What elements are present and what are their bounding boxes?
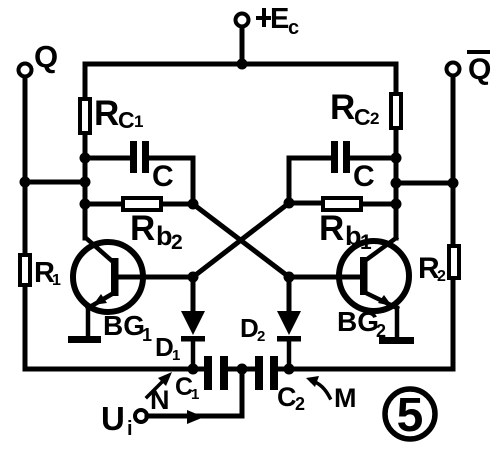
wire node B up to right capacitor C [289, 158, 330, 203]
label Rb2 [130, 209, 183, 254]
label D2 [240, 313, 265, 345]
svg-text:2: 2 [171, 231, 183, 254]
svg-text:1: 1 [172, 347, 180, 364]
ground BG2 emitter [379, 337, 414, 344]
label node N with pointer arrow [147, 372, 172, 415]
label BG1 [103, 310, 152, 345]
junction +Ec on top rail [237, 59, 248, 70]
svg-text:1: 1 [52, 272, 61, 289]
svg-text:E: E [270, 3, 289, 35]
terminal Ui [135, 410, 147, 422]
capacitor C1 [204, 356, 228, 390]
svg-text:R: R [330, 88, 355, 127]
svg-text:C: C [277, 382, 297, 412]
wire R2 to bottom rail [451, 280, 456, 369]
terminal Q [19, 64, 32, 77]
svg-text:1: 1 [191, 386, 199, 403]
label BG2 [337, 306, 386, 341]
wire R1 to bottom rail [23, 287, 28, 369]
svg-text:2: 2 [257, 328, 265, 345]
node A junction (Rb2 / C / cross wire) [188, 199, 199, 210]
svg-text:C: C [152, 160, 174, 193]
label Rb1 [319, 209, 372, 254]
svg-text:2: 2 [437, 268, 446, 285]
wire right rail to Qbar rail [396, 181, 453, 186]
wire Q rail down to R1 [23, 182, 28, 253]
wire bottom rail left segment [25, 367, 203, 372]
junction right rail / Rb1 [391, 199, 402, 210]
wire Qbar terminal down right rail [451, 76, 456, 183]
svg-text:C: C [353, 160, 375, 193]
resistor Rb1 [323, 198, 361, 210]
diode D2 [277, 311, 301, 369]
wire +Ec terminal to top rail [240, 27, 245, 64]
svg-text:C: C [354, 104, 371, 130]
label D1 [155, 332, 180, 364]
label Ui [101, 400, 133, 440]
wire Rb1 to right rail [363, 202, 396, 207]
wire bottom rail right segment [279, 367, 453, 372]
svg-text:i: i [127, 418, 133, 440]
diode D1 [181, 311, 205, 369]
wire right capacitor C to right rail [351, 156, 396, 161]
arrow on input wire [187, 410, 204, 424]
label RC2 [330, 88, 379, 130]
wire right rail top to RC2 [394, 64, 399, 92]
svg-text:BG: BG [337, 306, 379, 337]
svg-text:5: 5 [397, 389, 424, 442]
junction D1 / bottom rail / C1 (node N) [188, 364, 199, 375]
junction right rail / capacitor C [391, 153, 402, 164]
node C junction (BG1 base / D1 / cross wire) [188, 272, 199, 283]
junction input node between C1 and C2 [237, 364, 248, 375]
capacitor C2 [255, 356, 278, 390]
label Qbar [467, 52, 491, 86]
junction Qbar rail [448, 178, 459, 189]
wire bottom rail middle segment [229, 367, 255, 372]
wire Qbar rail down to R2 [451, 183, 456, 244]
junction Q rail / collector tie [20, 177, 31, 188]
svg-text:1: 1 [142, 325, 152, 345]
wire top supply rail [85, 62, 396, 67]
label C2 [277, 382, 305, 414]
resistor RC1 [80, 99, 90, 133]
transistor BG1 [73, 238, 143, 336]
svg-text:2: 2 [295, 394, 305, 414]
wire Q terminal down left rail [23, 77, 28, 182]
node D junction (BG2 base / D2 / cross wire) [284, 272, 295, 283]
wire RC1 to BG1 collector node [83, 135, 88, 238]
terminal Qbar [447, 63, 460, 76]
wire Q rail to BG1 collector rail [25, 180, 85, 185]
terminal +Ec [236, 14, 249, 27]
resistor R2 [449, 246, 459, 278]
svg-text:U: U [101, 400, 125, 437]
label node M with pointer arrow [306, 376, 357, 413]
capacitor C (left speed-up) [130, 141, 149, 173]
svg-text:c: c [288, 17, 299, 39]
junction right rail / Qbar tie [391, 178, 402, 189]
svg-text:BG: BG [103, 310, 145, 341]
svg-text:2: 2 [370, 109, 379, 128]
wire RC2 to BG2 collector node [394, 130, 399, 238]
label R1 [34, 257, 61, 289]
svg-text:Q: Q [468, 53, 491, 86]
svg-text:D: D [155, 332, 174, 362]
wire cross coupling node B to BG1 base node [193, 203, 289, 277]
label RC1 [94, 94, 143, 133]
wire node B to Rb1 [289, 201, 321, 206]
wire node D to diode D2 [287, 277, 292, 312]
resistor Rb2 [123, 198, 161, 210]
svg-text:1: 1 [134, 112, 143, 131]
label R2 [418, 252, 446, 285]
junction D2 / bottom rail / C2 (node M) [284, 364, 295, 375]
resistor R1 [20, 255, 30, 285]
svg-text:R: R [130, 209, 155, 248]
svg-text:N: N [150, 385, 170, 415]
wire left rail top to RC1 [83, 64, 88, 97]
label +Ec [256, 3, 299, 39]
capacitor C (right speed-up) [331, 141, 350, 173]
wire Rb2 to node A [163, 202, 193, 207]
label C1 [175, 373, 199, 403]
resistor RC2 [391, 94, 401, 128]
transistor BG2 [339, 238, 409, 337]
svg-text:D: D [240, 313, 259, 343]
svg-text:C: C [118, 107, 135, 133]
wire BG1 base to node C [117, 275, 193, 280]
svg-text:R: R [94, 94, 119, 133]
wire input node down and left to Ui [147, 369, 242, 416]
svg-text:Q: Q [34, 39, 58, 74]
svg-text:M: M [334, 383, 357, 413]
junction left rail / capacitor C [80, 153, 91, 164]
wire left rail to Rb2 [85, 202, 121, 207]
figure number 5 [385, 389, 435, 442]
wire left capacitor C to node A [150, 158, 193, 204]
junction left rail / Rb2 [80, 199, 91, 210]
wire node C to diode D1 [191, 277, 196, 312]
ground BG1 emitter [68, 336, 101, 343]
wire to left capacitor C [85, 156, 129, 161]
node B junction (Rb1 / right C / cross wire) [284, 198, 295, 209]
wire cross coupling node A to BG2 base node [193, 204, 289, 277]
junction left rail / Q tie [80, 177, 91, 188]
wire BG2 base to node D [289, 275, 361, 280]
svg-text:R: R [319, 209, 344, 248]
